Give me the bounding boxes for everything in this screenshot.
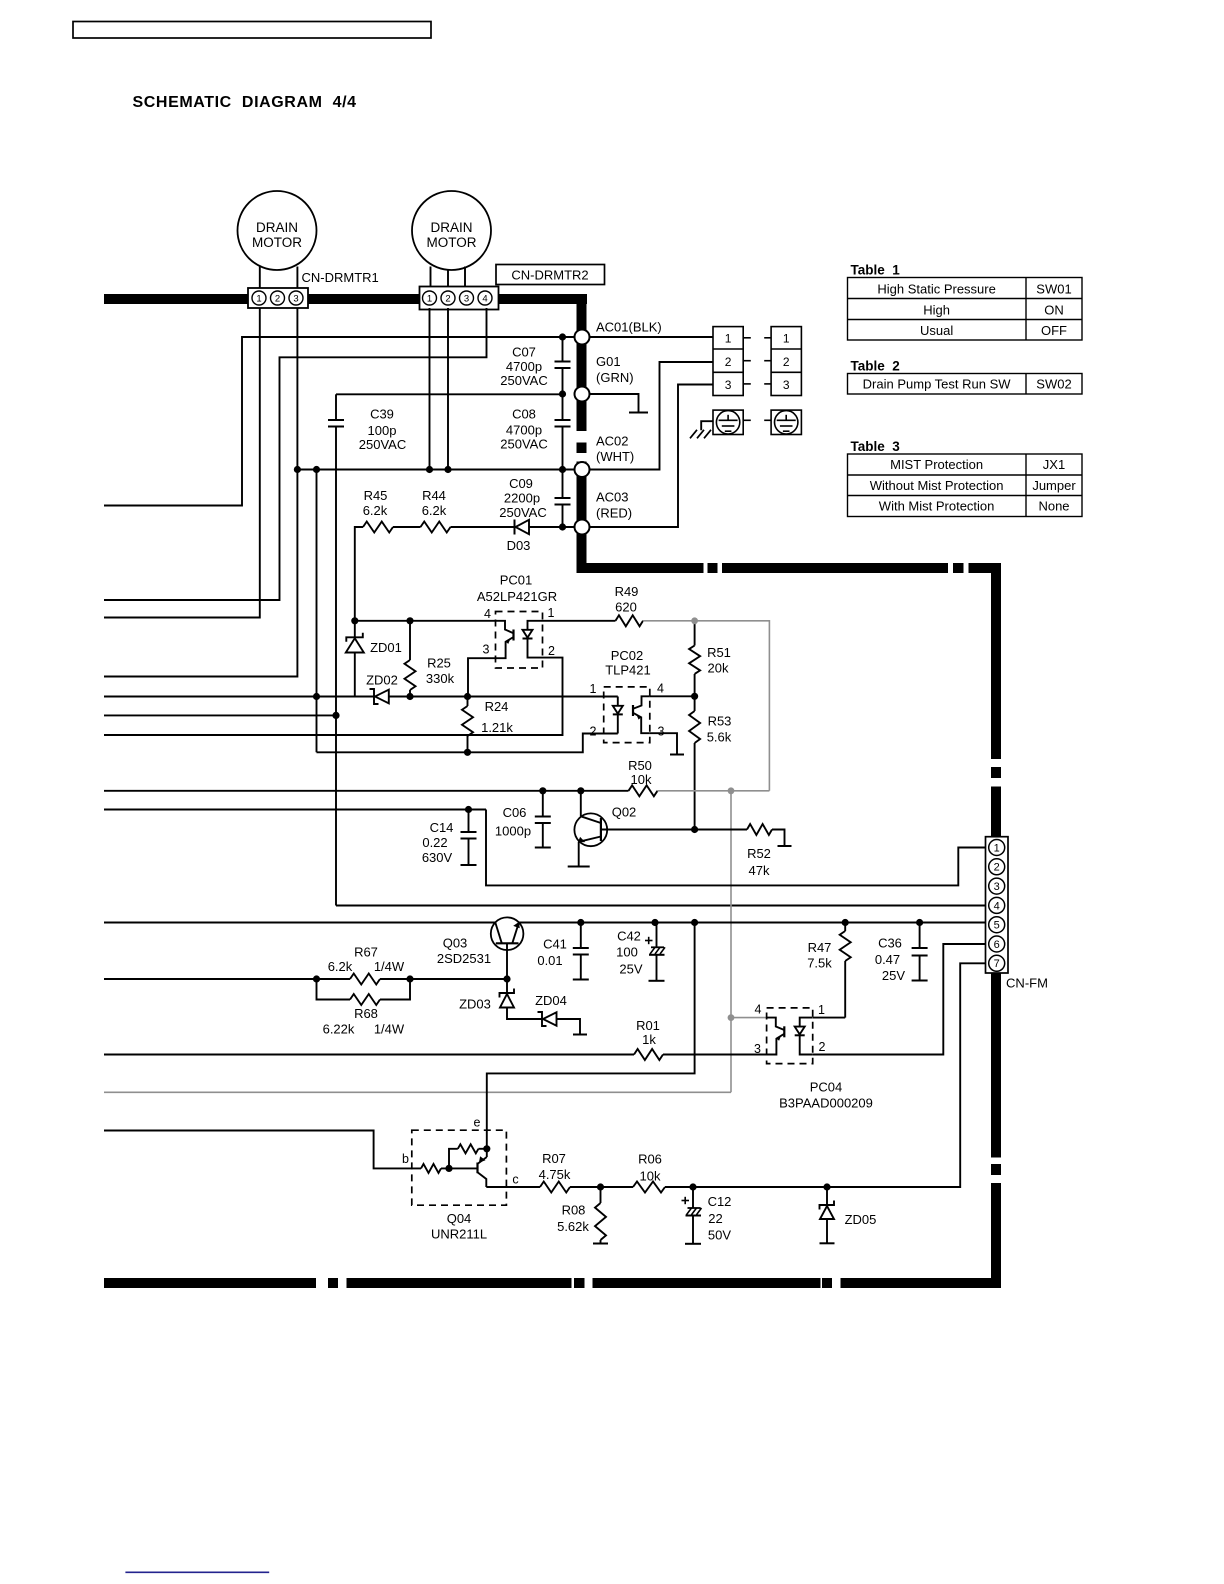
thick bus: middle horizontal bar xyxy=(577,563,704,573)
connector SW block left xyxy=(713,327,743,396)
svg-text:6: 6 xyxy=(994,939,1000,951)
svg-text:3: 3 xyxy=(464,293,469,304)
junction ZD01/R45 node xyxy=(351,617,358,624)
wire PC02 pin3 stub xyxy=(650,733,677,754)
svg-text:B3PAAD000209: B3PAAD000209 xyxy=(779,1096,873,1111)
svg-text:1000p: 1000p xyxy=(495,824,531,839)
Q04 internal transistor xyxy=(476,1163,478,1174)
svg-text:250VAC: 250VAC xyxy=(499,505,546,520)
junction R67/R68 left xyxy=(313,975,320,982)
svg-text:High: High xyxy=(923,303,950,318)
svg-text:ZD02: ZD02 xyxy=(366,673,398,688)
wire PC01 pin2 to left edge (y=735) xyxy=(104,658,563,735)
resistor R47 7.5k xyxy=(844,923,846,932)
junction R07/R08 xyxy=(597,1183,604,1190)
svg-text:R52: R52 xyxy=(747,846,771,861)
svg-text:50V: 50V xyxy=(708,1228,731,1243)
svg-text:(GRN): (GRN) xyxy=(596,370,634,385)
junction AC02 rail / DRMTR2 pin2 xyxy=(444,466,451,473)
svg-text:22: 22 xyxy=(708,1211,722,1226)
svg-text:DRAIN: DRAIN xyxy=(430,220,472,235)
svg-text:4: 4 xyxy=(657,682,664,696)
svg-text:None: None xyxy=(1038,499,1069,514)
svg-text:R06: R06 xyxy=(638,1152,662,1167)
resistor R67 6.2k 1/4W xyxy=(350,974,380,985)
chassis ground xyxy=(701,421,713,430)
optocoupler PC01 xyxy=(496,612,543,669)
wire M1 to CN-DRMTR1 pin1 xyxy=(259,267,261,290)
svg-text:AC01(BLK): AC01(BLK) xyxy=(596,320,662,335)
junction R24 bottom xyxy=(464,749,471,756)
svg-text:CN-DRMTR2: CN-DRMTR2 xyxy=(511,268,588,283)
resistor R45 6.2k xyxy=(363,522,393,533)
junction C41 rail xyxy=(577,919,584,926)
svg-text:c: c xyxy=(512,1173,518,1187)
svg-text:1/4W: 1/4W xyxy=(374,959,405,974)
svg-text:0.01: 0.01 xyxy=(537,953,562,968)
junction Q04-e rail xyxy=(691,919,698,926)
wire CN-DRMTR1 pin3 branch xyxy=(104,308,297,677)
svg-text:2: 2 xyxy=(783,355,790,369)
svg-text:2: 2 xyxy=(590,725,597,739)
capacitor C36 xyxy=(919,923,921,949)
wire R01 row (y=1054.5) xyxy=(104,1054,634,1056)
junction Q04 emitter node xyxy=(483,1145,490,1152)
capacitor C42 (electrolytic) xyxy=(656,923,658,948)
svg-text:C42: C42 xyxy=(617,929,641,944)
junction C39/wireE xyxy=(332,712,339,719)
junction C12 xyxy=(689,1183,696,1190)
svg-text:1: 1 xyxy=(783,331,790,345)
svg-text:Q04: Q04 xyxy=(447,1211,472,1226)
svg-text:Table 2: Table 2 xyxy=(851,359,900,374)
wire AC01 to SW cell1 xyxy=(590,336,714,338)
wire AC03/D03 row xyxy=(355,527,363,621)
svg-text:4: 4 xyxy=(484,607,491,621)
svg-text:6.22k: 6.22k xyxy=(323,1022,355,1037)
wire C39 bottom to CN-FM pin4 xyxy=(336,905,986,907)
svg-text:C41: C41 xyxy=(543,937,567,952)
svg-text:6.2k: 6.2k xyxy=(422,503,447,518)
svg-text:C12: C12 xyxy=(708,1194,732,1209)
svg-text:SCHEMATIC DIAGRAM 4/4: SCHEMATIC DIAGRAM 4/4 xyxy=(133,94,357,111)
wire M1 to CN-DRMTR1 pin3 xyxy=(296,267,298,290)
svg-text:25V: 25V xyxy=(619,962,642,977)
svg-text:TLP421: TLP421 xyxy=(605,663,651,678)
svg-text:C07: C07 xyxy=(512,345,536,360)
svg-text:C14: C14 xyxy=(430,820,454,835)
svg-text:3: 3 xyxy=(483,643,490,657)
svg-text:MOTOR: MOTOR xyxy=(427,235,477,250)
svg-text:With Mist Protection: With Mist Protection xyxy=(879,499,995,514)
capacitor C12 (electrolytic) xyxy=(692,1187,694,1208)
wire net AC01 left branch xyxy=(104,337,582,506)
svg-text:1/4W: 1/4W xyxy=(374,1022,405,1037)
svg-text:630V: 630V xyxy=(422,850,453,865)
connector CN-FM xyxy=(986,837,1009,973)
connector CN-DRMTR1 xyxy=(248,288,308,308)
svg-text:4: 4 xyxy=(755,1003,762,1017)
resistor R25 330k xyxy=(409,621,411,660)
svg-text:3: 3 xyxy=(994,881,1000,893)
svg-text:5.6k: 5.6k xyxy=(707,730,732,745)
svg-text:C06: C06 xyxy=(503,805,527,820)
svg-text:25V: 25V xyxy=(882,968,905,983)
wire C14 / CN-FM pin1 net xyxy=(104,809,486,811)
resistor R52 47k xyxy=(747,824,772,835)
svg-text:2: 2 xyxy=(994,862,1000,874)
svg-text:R08: R08 xyxy=(562,1203,586,1218)
zener ZD01 xyxy=(354,621,356,638)
resistor R49 620 xyxy=(543,620,616,622)
thick bus: right vertical bar xyxy=(991,563,1001,759)
Q04 internal b-e resistor xyxy=(449,1149,458,1169)
svg-text:6.2k: 6.2k xyxy=(328,959,353,974)
junction ZD05 xyxy=(823,1183,830,1190)
junction C36 rail xyxy=(916,919,923,926)
svg-text:1k: 1k xyxy=(642,1032,656,1047)
gray junction at PC04 pin4 xyxy=(728,1014,735,1021)
svg-text:A52LP421GR: A52LP421GR xyxy=(477,589,557,604)
svg-text:100: 100 xyxy=(616,945,638,960)
svg-text:10k: 10k xyxy=(640,1169,661,1184)
junction C09/D03/AC03 xyxy=(559,523,566,530)
connector SW block right xyxy=(771,327,801,396)
wire M2 to CN-DRMTR2 pin1 xyxy=(430,267,432,290)
svg-text:R47: R47 xyxy=(808,940,832,955)
svg-text:4: 4 xyxy=(994,900,1000,912)
diode D03 xyxy=(514,520,516,535)
svg-text:R45: R45 xyxy=(364,488,388,503)
svg-text:6.2k: 6.2k xyxy=(363,503,388,518)
optocoupler PC02 xyxy=(604,687,650,743)
wire AC02 branch vertical x=316 xyxy=(316,470,318,753)
wire M2 to CN-DRMTR2 pin2 xyxy=(447,270,449,289)
junction R24/PC01 pin3 xyxy=(464,693,471,700)
junction C06 top xyxy=(539,787,546,794)
wire M2 to CN-DRMTR2 pin3 xyxy=(464,267,466,290)
svg-text:1: 1 xyxy=(818,1003,825,1017)
svg-text:R24: R24 xyxy=(485,699,509,714)
wire AC03 to SW cell3 xyxy=(590,385,714,528)
svg-text:AC03: AC03 xyxy=(596,490,629,505)
svg-text:R53: R53 xyxy=(708,714,732,729)
wire PC02 pin4 to R51 xyxy=(650,695,695,697)
resistor R50 10k xyxy=(629,785,658,796)
svg-text:3: 3 xyxy=(783,378,790,392)
Q04 internal base resistor xyxy=(421,1164,441,1173)
label box CN-DRMTR2 xyxy=(496,265,605,285)
svg-text:ZD04: ZD04 xyxy=(535,993,567,1008)
svg-text:47k: 47k xyxy=(749,863,770,878)
zener ZD05 xyxy=(826,1187,828,1205)
resistor R44 6.2k xyxy=(421,522,451,533)
svg-text:C36: C36 xyxy=(878,936,902,951)
wire PC01 pin4 net (y=620.8) xyxy=(355,620,496,622)
svg-text:250VAC: 250VAC xyxy=(500,373,547,388)
svg-text:250VAC: 250VAC xyxy=(359,437,406,452)
wire CN-FM pin6 to PC04 pin2 xyxy=(813,944,986,1055)
svg-text:0.22: 0.22 xyxy=(422,835,447,850)
wire R67/R68 row (y=979) xyxy=(104,978,350,980)
svg-text:1: 1 xyxy=(427,293,432,304)
gray junction at R49/R51 xyxy=(691,617,698,624)
resistor R53 5.6k xyxy=(694,696,696,711)
junction AC02 rail / DRMTR2 pin1 xyxy=(426,466,433,473)
svg-text:OFF: OFF xyxy=(1041,323,1067,338)
terminal AC03 xyxy=(575,520,590,535)
wire CN-DRMTR2 pin2 to AC02 rail xyxy=(447,308,449,470)
thick bus: bottom horizontal bar xyxy=(104,1278,316,1288)
svg-text:4: 4 xyxy=(482,293,487,304)
wire capacitor chain vertical xyxy=(562,337,564,362)
svg-text:2: 2 xyxy=(445,293,450,304)
svg-text:AC02: AC02 xyxy=(596,434,629,449)
gray net: R49/R51 to PC04 pin4 xyxy=(643,620,695,622)
wire CN-DRMTR1 pin1 branch xyxy=(104,308,260,618)
svg-text:ZD05: ZD05 xyxy=(845,1212,877,1227)
wire main rail to CN-FM pin5 (y=922.5) xyxy=(104,922,495,924)
svg-text:R50: R50 xyxy=(628,758,652,773)
svg-text:D03: D03 xyxy=(507,538,531,553)
svg-text:PC02: PC02 xyxy=(611,648,644,663)
capacitor C41 xyxy=(580,923,582,949)
svg-text:C08: C08 xyxy=(512,407,536,422)
capacitor C06 xyxy=(542,791,544,817)
svg-text:100p: 100p xyxy=(368,423,397,438)
resistor R68 6.22k 1/4W parallel loop xyxy=(317,979,351,1000)
drain motor M1 xyxy=(238,191,317,270)
svg-text:ON: ON xyxy=(1044,303,1064,318)
capacitor C08 xyxy=(555,419,571,421)
svg-text:1: 1 xyxy=(725,331,732,345)
svg-text:2: 2 xyxy=(819,1040,826,1054)
transistor Q03 xyxy=(491,917,524,950)
wire Q02 base row xyxy=(601,829,747,831)
zener ZD04 xyxy=(538,1012,547,1026)
resistor R01 1k xyxy=(634,1049,663,1060)
wire Q04 collector row (y=1187) xyxy=(486,1186,540,1188)
svg-text:Jumper: Jumper xyxy=(1032,478,1076,493)
svg-text:2: 2 xyxy=(725,355,732,369)
junction AC02 rail / pin3 xyxy=(294,466,301,473)
footer rule xyxy=(125,1571,269,1573)
svg-text:e: e xyxy=(474,1116,481,1130)
transistor Q02 xyxy=(574,813,607,846)
wire PC02 pin2 net (y=752.3) xyxy=(317,734,618,753)
svg-text:R51: R51 xyxy=(707,645,731,660)
wire CN-DRMTR2 pin4 branch xyxy=(104,308,487,600)
capacitor C39 xyxy=(336,393,563,395)
wire AC02 to SW cell2 xyxy=(590,362,714,470)
wire CN-DRMTR2 pin1 to AC02 rail xyxy=(429,308,431,470)
svg-text:10k: 10k xyxy=(631,772,652,787)
svg-text:PC01: PC01 xyxy=(500,573,533,588)
zener ZD03 xyxy=(506,979,508,993)
resistor R07 4.75k xyxy=(540,1182,570,1193)
svg-text:SW02: SW02 xyxy=(1036,377,1071,392)
svg-text:1: 1 xyxy=(590,682,597,696)
junction C07/C08/G01 xyxy=(559,390,566,397)
svg-text:R01: R01 xyxy=(636,1018,660,1033)
junction Q04 base node xyxy=(445,1165,452,1172)
svg-text:PC04: PC04 xyxy=(810,1080,843,1095)
resistor R51 20k xyxy=(694,621,696,646)
svg-text:(RED): (RED) xyxy=(596,506,632,521)
drain motor M2 xyxy=(412,191,491,270)
svg-text:MOTOR: MOTOR xyxy=(252,235,302,250)
wire Q04 base branch xyxy=(104,1131,421,1169)
svg-text:4700p: 4700p xyxy=(506,423,542,438)
svg-text:2SD2531: 2SD2531 xyxy=(437,951,491,966)
optocoupler PC04 xyxy=(767,1008,813,1064)
svg-text:R67: R67 xyxy=(354,945,378,960)
svg-text:620: 620 xyxy=(615,600,637,615)
terminal AC01 xyxy=(575,330,590,345)
svg-text:3: 3 xyxy=(725,378,732,392)
protective earth terminal right xyxy=(771,410,801,434)
svg-text:CN-DRMTR1: CN-DRMTR1 xyxy=(302,270,379,285)
svg-text:C09: C09 xyxy=(509,476,533,491)
svg-text:JX1: JX1 xyxy=(1043,457,1065,472)
wire C39 junction branch (y=715.4) xyxy=(104,714,336,716)
svg-text:b: b xyxy=(402,1152,409,1166)
svg-text:Table 1: Table 1 xyxy=(851,263,901,278)
svg-text:4700p: 4700p xyxy=(506,359,542,374)
connector CN-DRMTR2 xyxy=(420,287,499,310)
svg-text:4.75k: 4.75k xyxy=(539,1167,571,1182)
svg-text:1: 1 xyxy=(548,606,555,620)
junction R25 top xyxy=(406,617,413,624)
svg-text:2: 2 xyxy=(275,293,280,304)
svg-text:ZD01: ZD01 xyxy=(370,640,402,655)
svg-text:R68: R68 xyxy=(354,1006,378,1021)
wire LED drive row (PC02 pin1 net) xyxy=(104,696,374,698)
svg-text:SW01: SW01 xyxy=(1036,282,1071,297)
junction C14 top xyxy=(465,806,472,813)
svg-text:7.5k: 7.5k xyxy=(807,956,832,971)
junction AC02 rail / x316 xyxy=(313,466,320,473)
svg-text:Q02: Q02 xyxy=(612,805,637,820)
junction Q02 collector top xyxy=(577,787,584,794)
svg-text:MIST Protection: MIST Protection xyxy=(890,457,983,472)
resistor R24 1.21k xyxy=(467,697,469,707)
svg-text:High Static Pressure: High Static Pressure xyxy=(877,282,996,297)
svg-text:CN-FM: CN-FM xyxy=(1006,976,1048,991)
junction R47 rail xyxy=(842,919,849,926)
resistor R08 5.62k xyxy=(600,1187,602,1203)
svg-text:2: 2 xyxy=(548,644,555,658)
gray junction at R50 xyxy=(728,787,735,794)
terminal AC02 xyxy=(575,462,590,477)
svg-text:R49: R49 xyxy=(615,584,639,599)
wire R50/Q02 base row (y=790.8) xyxy=(104,790,629,792)
svg-text:(WHT): (WHT) xyxy=(596,449,634,464)
capacitor C14 xyxy=(468,810,470,833)
svg-text:Drain Pump Test Run SW: Drain Pump Test Run SW xyxy=(863,377,1012,392)
junction R67/R68 right xyxy=(406,975,413,982)
transistor block Q04 UNR211L xyxy=(412,1130,507,1205)
svg-text:Without Mist Protection: Without Mist Protection xyxy=(870,478,1004,493)
zener ZD02 xyxy=(370,689,379,704)
svg-text:7: 7 xyxy=(994,958,1000,970)
thick bus: top horizontal bar xyxy=(104,294,587,304)
svg-text:ZD03: ZD03 xyxy=(459,997,491,1012)
svg-text:0.47: 0.47 xyxy=(875,952,900,967)
svg-text:5: 5 xyxy=(994,920,1000,932)
junction ZD02/R25 xyxy=(406,693,413,700)
svg-text:G01: G01 xyxy=(596,354,621,369)
svg-text:1: 1 xyxy=(994,842,1000,854)
junction wireD/x316 xyxy=(313,693,320,700)
resistor R06 10k xyxy=(633,1182,665,1193)
svg-text:C39: C39 xyxy=(370,407,394,422)
junction C08/C09/AC02 xyxy=(559,466,566,473)
junction Q02 base/R52/R53 xyxy=(691,826,698,833)
svg-text:1: 1 xyxy=(256,293,261,304)
svg-text:R07: R07 xyxy=(542,1151,566,1166)
junction C42 rail xyxy=(651,919,658,926)
wire CN-FM pin7 branch xyxy=(944,963,986,1187)
svg-text:UNR211L: UNR211L xyxy=(431,1227,487,1242)
wire Q04 emitter to rail xyxy=(487,923,695,1149)
junction C07/AC01 xyxy=(559,333,566,340)
svg-text:20k: 20k xyxy=(708,661,729,676)
svg-text:R44: R44 xyxy=(422,488,446,503)
svg-text:Q03: Q03 xyxy=(443,936,468,951)
svg-text:Usual: Usual xyxy=(920,323,953,338)
svg-text:250VAC: 250VAC xyxy=(500,437,547,452)
junction R51/R53/PC02 pin4 xyxy=(691,693,698,700)
svg-text:3: 3 xyxy=(293,293,298,304)
svg-text:5.62k: 5.62k xyxy=(557,1219,589,1234)
svg-text:Table 3: Table 3 xyxy=(851,439,901,454)
SW link stubs xyxy=(743,337,751,339)
wire AC02 rail xyxy=(297,469,578,471)
capacitor C07 xyxy=(555,361,571,363)
junction Q03 base/ZD03 xyxy=(503,975,510,982)
svg-text:330k: 330k xyxy=(426,671,455,686)
svg-text:R25: R25 xyxy=(427,656,451,671)
svg-text:DRAIN: DRAIN xyxy=(256,220,298,235)
wire G01 stub xyxy=(590,394,639,412)
svg-text:1.21k: 1.21k xyxy=(481,720,513,735)
header empty box xyxy=(73,22,431,39)
capacitor C09 xyxy=(555,497,571,499)
protective earth terminal left xyxy=(713,410,743,434)
svg-text:3: 3 xyxy=(658,725,665,739)
thick bus: AC terminal strip vertical xyxy=(577,294,587,431)
svg-text:2200p: 2200p xyxy=(504,491,540,506)
terminal G01 xyxy=(575,387,590,402)
